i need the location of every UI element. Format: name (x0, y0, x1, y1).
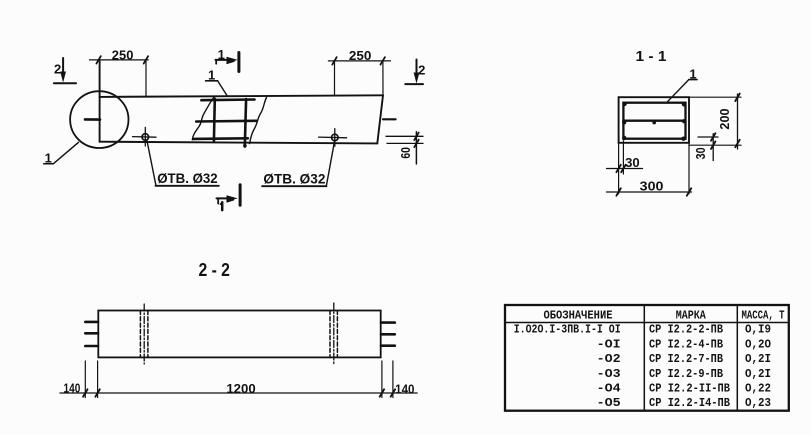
svg-text:1: 1 (45, 151, 52, 166)
rebar cage: right stirrup (245, 99, 246, 147)
table header separator (505, 322, 789, 324)
svg-text:1: 1 (208, 68, 215, 83)
right rebar end 1 (381, 321, 395, 324)
dim 200 top extension (689, 96, 741, 98)
rebar dot mid-right (682, 119, 686, 123)
dim 250 left right extension line (145, 60, 147, 96)
section 1-1 leader line (667, 80, 689, 103)
svg-text:300: 300 (640, 179, 664, 194)
rebar dot top-left (622, 102, 626, 106)
hole right dashed line A (329, 311, 331, 358)
section 2-2 outline (98, 311, 380, 358)
svg-text:-О2: -О2 (597, 352, 621, 366)
hole right circle (332, 134, 339, 141)
dim 60 vertical dim line (415, 132, 417, 164)
svg-text:140: 140 (395, 381, 414, 396)
dim 30 (bottom-left) dim line (607, 168, 643, 170)
dim 250 right tick A (332, 57, 336, 64)
table column line 2 (736, 305, 738, 411)
right end mid-height tick (383, 118, 396, 120)
section 1-1 middle bar line (623, 120, 685, 122)
tick far-left (83, 389, 87, 396)
left rebar end 2 (85, 332, 98, 335)
right rebar end 2 (381, 333, 395, 336)
svg-text:200: 200 (717, 108, 732, 129)
dim 60 lower line (387, 142, 423, 144)
svg-text:О,23: О,23 (745, 396, 771, 410)
rebar dot bottom-right (681, 137, 685, 141)
svg-text:ØТВ. Ø32: ØТВ. Ø32 (263, 171, 325, 186)
section marker 1 (bottom) label (221, 202, 224, 210)
dim 60 upper line (386, 135, 423, 137)
dim 200 line (737, 94, 739, 149)
table outer border (505, 305, 789, 411)
svg-text:1200: 1200 (226, 381, 255, 396)
rebar cage: right break line (250, 98, 267, 144)
dimension 250 (right) line (328, 60, 390, 62)
svg-text:250: 250 (112, 47, 134, 62)
hole left centerline (143, 304, 145, 364)
dim 300 right extension (688, 144, 690, 194)
dim 300 line (607, 191, 692, 193)
rebar dot mid-left (622, 120, 626, 124)
rebar cage: bottom bar (193, 137, 248, 140)
section marker 1 (bottom) arrowhead (227, 195, 238, 201)
section marker 2 (left) vertical line (62, 58, 64, 75)
left rebar end 1 (85, 321, 98, 324)
svg-text:СР I2.2-2-ПВ: СР I2.2-2-ПВ (649, 323, 723, 337)
dim 30 bottom tick B (621, 165, 625, 172)
rebar dot center (652, 121, 656, 125)
svg-text:1: 1 (218, 47, 225, 62)
dim 30 right tick upper (711, 133, 715, 140)
hole label right leader (326, 140, 334, 186)
hole right horizontal centerline (319, 136, 347, 139)
svg-text:МАССА, Т: МАССА, Т (742, 308, 785, 322)
section marker 2 (right) base line (405, 83, 423, 85)
dim 250 right left extension line (334, 61, 336, 96)
hole left circle (142, 134, 149, 141)
svg-text:ОБОЗНАЧЕНИЕ: ОБОЗНАЧЕНИЕ (544, 308, 613, 322)
svg-text:30: 30 (693, 147, 708, 159)
hole label left underline (156, 185, 219, 187)
beam bottom edge (100, 142, 378, 144)
svg-text:1: 1 (689, 66, 696, 81)
hole left vertical centerline (144, 127, 146, 146)
svg-text:СР I2.2-4-ПВ: СР I2.2-4-ПВ (649, 338, 723, 352)
dim 250 left tick A (96, 56, 100, 63)
section marker 1 (top) left stub (215, 60, 217, 64)
dim 200 tick bottom (735, 140, 739, 147)
svg-text:2 - 2: 2 - 2 (198, 260, 230, 280)
svg-text:I.О2О.I-3ПВ.I-I ОI: I.О2О.I-3ПВ.I-I ОI (514, 323, 621, 337)
svg-text:О,2I: О,2I (745, 367, 771, 381)
svg-text:60: 60 (399, 147, 413, 159)
extension line far-left (84, 361, 86, 398)
section marker 1 (bottom) cut bar (239, 185, 242, 206)
section 1-1 outer outline (619, 97, 689, 143)
svg-text:2: 2 (54, 62, 61, 77)
dim 30 bottom tick A (616, 165, 620, 172)
dim 300 tick right (687, 188, 691, 195)
svg-text:250: 250 (349, 48, 372, 63)
section marker 2 (right) arrowhead (414, 73, 420, 84)
svg-text:-ОI: -ОI (597, 338, 621, 352)
beam left edge / extension line (99, 60, 101, 142)
mid-height tick in circle (85, 118, 100, 121)
dim 250 right tick B (381, 57, 385, 64)
hole right centerline (333, 303, 335, 365)
rebar cage leader line (218, 81, 227, 96)
svg-text:-О4: -О4 (597, 382, 621, 396)
table column line 1 (643, 305, 645, 411)
svg-text:О,22: О,22 (745, 382, 771, 396)
svg-text:-О5: -О5 (597, 396, 621, 410)
beam right slanted end (377, 95, 383, 143)
hole left dashed line A (139, 311, 141, 358)
section marker 1 (top) cut bar (237, 53, 240, 72)
dim 30 (right) dim line (712, 134, 714, 161)
dim 200 tick top (735, 94, 739, 101)
dim 30 (right) level line (698, 136, 718, 138)
rebar dot top-right (682, 102, 686, 106)
section marker 1 (bottom) arrow line (217, 197, 231, 199)
section marker 1 (top) arrow line (216, 59, 231, 61)
svg-text:ØТВ. Ø32: ØТВ. Ø32 (157, 171, 218, 186)
left rebar end 3 (85, 345, 98, 348)
rebar cage label underline (206, 80, 218, 82)
rebar cage: top bar (201, 98, 254, 101)
svg-text:30: 30 (625, 155, 640, 170)
rebar cage: middle bar (196, 120, 257, 123)
svg-text:2: 2 (418, 63, 425, 78)
tick far-right (391, 389, 395, 396)
right rebar end 3 (381, 344, 395, 347)
dim 60 tick lower (414, 140, 418, 147)
svg-text:СР I2.2-9-ПВ: СР I2.2-9-ПВ (649, 367, 723, 381)
dimension 250 (left) line (90, 59, 149, 61)
section marker 2 (left) arrowhead (60, 72, 66, 83)
svg-text:МАРКА: МАРКА (676, 308, 707, 322)
svg-text:140: 140 (64, 381, 81, 396)
rebar cage: left stirrup (213, 99, 217, 142)
svg-text:СР I2.2-II-ПВ: СР I2.2-II-ПВ (649, 382, 730, 396)
svg-text:О,2I: О,2I (745, 352, 771, 366)
dim 30 right tick lower (711, 142, 715, 149)
tick beam-left (95, 389, 99, 396)
section marker 1 (bottom) left stub (217, 198, 219, 203)
rebar cage: left break line (192, 97, 214, 140)
dim 300 tick left (616, 188, 620, 195)
dim 200 bottom extension (689, 144, 741, 146)
detail circle (70, 91, 128, 148)
svg-text:О,I9: О,I9 (745, 323, 771, 337)
svg-text:1 - 1: 1 - 1 (636, 48, 667, 65)
beam top edge (100, 95, 383, 97)
rebar dot bottom-left (622, 136, 626, 140)
extension line beam-right (381, 361, 383, 398)
hole label right underline (262, 185, 326, 187)
svg-text:О,2О: О,2О (745, 338, 771, 352)
dim 250 left tick B (144, 56, 148, 63)
dim 30 (bottom-left) extension from outer edge (618, 144, 620, 194)
tick beam-right (380, 389, 384, 396)
svg-text:СР I2.2-7-ПВ: СР I2.2-7-ПВ (649, 352, 723, 366)
leader to label 1 (detail) (44, 142, 79, 164)
extension line beam-left (97, 361, 99, 398)
svg-text:-О3: -О3 (597, 367, 621, 381)
section 1-1 label underline (689, 79, 697, 81)
section 1-1 stirrup rectangle (623, 103, 685, 139)
hole right dashed line B (336, 311, 338, 358)
dim 30 (bottom-left) extension from stirrup (622, 141, 624, 174)
dim 60 tick upper (414, 133, 418, 140)
svg-text:СР I2.2-I4-ПВ: СР I2.2-I4-ПВ (649, 396, 730, 410)
bottom dimension line (60, 392, 417, 394)
hole left dashed line B (147, 311, 149, 358)
section marker 2 (left) base line (54, 82, 76, 84)
rebar cage stirrup end dot (243, 144, 247, 148)
section marker 1 (top) arrowhead (227, 57, 238, 63)
extension line far-right (392, 361, 394, 398)
section marker 2 (right) vertical line (416, 60, 418, 77)
hole label left leader (147, 140, 156, 186)
hole left horizontal centerline (133, 136, 157, 139)
hole right vertical centerline (334, 129, 336, 147)
right end extension line up to dim (382, 61, 384, 95)
